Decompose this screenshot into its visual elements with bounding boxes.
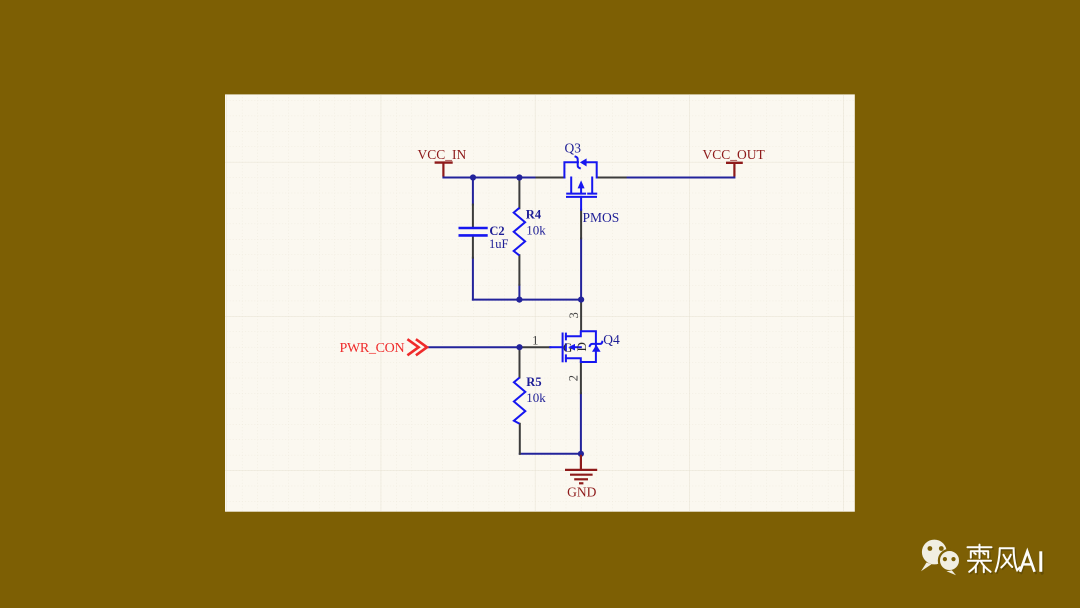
wire C2 branch upper bbox=[472, 178, 474, 205]
svg-text:PMOS: PMOS bbox=[583, 210, 620, 225]
glyph 风 bbox=[996, 548, 1000, 571]
capacitor C2 bbox=[459, 228, 488, 235]
wechat logo big bubble bbox=[921, 540, 947, 572]
pin Q3 drain (left) bbox=[537, 177, 565, 179]
svg-text:Q3: Q3 bbox=[565, 140, 582, 155]
svg-text:C2: C2 bbox=[489, 224, 504, 238]
glyph 霁 lower 齐 bbox=[968, 560, 991, 562]
glyph 霁 rain radical bbox=[968, 546, 992, 548]
pin Q4 source (pin 2, bottom) bbox=[580, 362, 582, 393]
svg-text:3: 3 bbox=[567, 312, 581, 318]
wire mid horizontal (C2/R4 bottom to Q3 gate net) bbox=[473, 299, 581, 301]
pin C2 top bbox=[472, 205, 474, 227]
footer text AI bbox=[1020, 551, 1041, 572]
svg-text:R4: R4 bbox=[526, 207, 542, 221]
pin Q3 gate bbox=[580, 210, 582, 239]
svg-text:GND: GND bbox=[567, 485, 596, 500]
wire PWR_CON horizontal bbox=[426, 346, 519, 348]
svg-text:1: 1 bbox=[532, 333, 538, 347]
svg-text:Q4: Q4 bbox=[603, 332, 620, 347]
wire Q4 source vertical bbox=[580, 393, 582, 454]
wire C2 branch lower bbox=[472, 258, 474, 300]
wire Q3 gate vertical bbox=[580, 238, 582, 299]
net VCC_OUT top-right wire bbox=[626, 177, 735, 179]
pin C2 bottom bbox=[472, 236, 474, 257]
power port VCC_IN bbox=[435, 163, 453, 177]
pin R5 top bbox=[519, 347, 521, 377]
schematic sheet panel bbox=[225, 94, 855, 511]
footer text 霁风AI (hand drawn CJK strokes) bbox=[969, 546, 1042, 574]
net VCC_IN top wire bbox=[443, 177, 536, 178]
svg-text:10k: 10k bbox=[526, 390, 546, 405]
svg-text:VCC_IN: VCC_IN bbox=[418, 147, 467, 162]
power port VCC_OUT bbox=[726, 163, 743, 177]
pin R4 bottom bbox=[518, 255, 520, 285]
junction VCC_IN / R4 bbox=[516, 174, 522, 180]
harness port PWR_CON chevrons bbox=[407, 339, 427, 355]
pin Q4 drain (pin 3, top) bbox=[580, 301, 582, 331]
pin R5 bottom bbox=[519, 424, 521, 454]
svg-text:G: G bbox=[563, 340, 572, 355]
ground GND bbox=[565, 455, 597, 484]
junction mid / Q3 gate net bbox=[578, 297, 584, 303]
svg-text:R5: R5 bbox=[526, 375, 541, 389]
pin Q4 gate (pin 1) bbox=[520, 346, 551, 348]
pin Q3 source (right) bbox=[597, 177, 626, 179]
pin R4 top bbox=[518, 178, 520, 209]
junction GND node bbox=[578, 451, 584, 457]
svg-text:2: 2 bbox=[567, 375, 581, 381]
svg-text:PWR_CON: PWR_CON bbox=[340, 341, 405, 356]
wire R4 bottom stub bbox=[518, 285, 520, 300]
junction PWR_CON / R5 bbox=[516, 344, 522, 350]
svg-text:D: D bbox=[574, 342, 589, 351]
svg-text:10k: 10k bbox=[526, 223, 546, 238]
transistor Q3 (PMOS) bbox=[564, 157, 596, 210]
svg-text:1uF: 1uF bbox=[489, 237, 509, 251]
junction VCC_IN / C2 bbox=[470, 174, 476, 180]
resistor R5 bbox=[514, 378, 525, 424]
transistor Q4 (NMOS) bbox=[550, 331, 602, 362]
svg-text:VCC_OUT: VCC_OUT bbox=[703, 147, 766, 162]
resistor R4 bbox=[514, 208, 525, 256]
junction mid / R4 bottom bbox=[516, 297, 522, 303]
wire bottom horizontal (R5 to GND junction) bbox=[520, 453, 581, 455]
wechat logo small bubble bbox=[939, 550, 960, 575]
